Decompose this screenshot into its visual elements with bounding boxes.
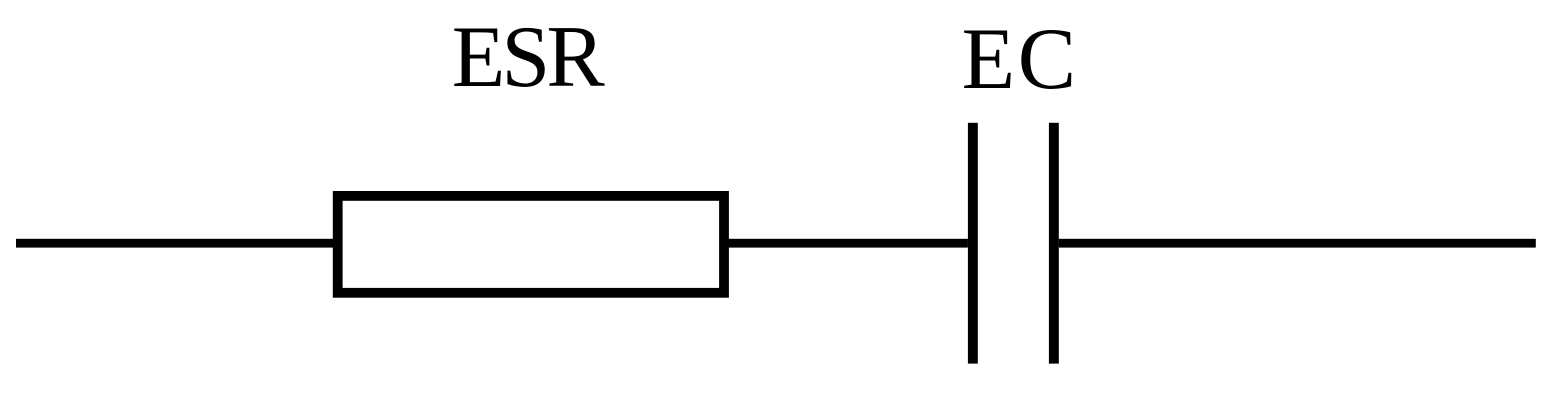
wire right lead <box>1059 239 1536 248</box>
svg-text:EC: EC <box>962 10 1079 107</box>
svg-text:ESR: ESR <box>452 8 606 105</box>
resistor ESR <box>338 196 724 293</box>
capacitor left plate <box>968 123 978 364</box>
capacitor EC <box>968 123 1059 364</box>
capacitor right plate <box>1049 123 1059 364</box>
wire middle <box>724 239 968 248</box>
wire left lead <box>16 239 337 248</box>
